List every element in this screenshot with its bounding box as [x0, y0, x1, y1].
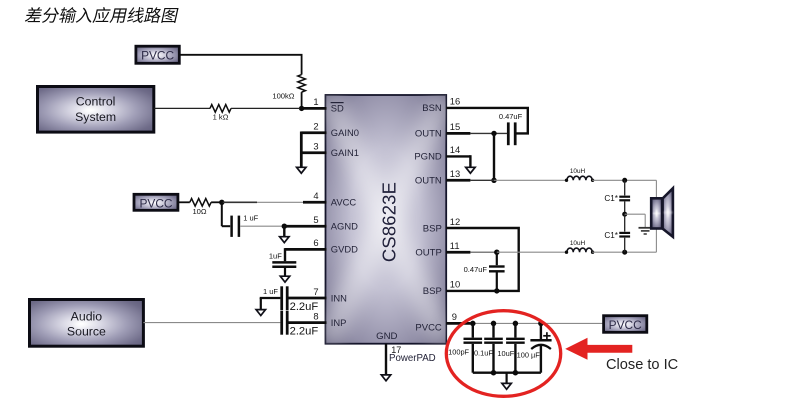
wire: cap down to pin 10 line: [496, 273, 498, 291]
wire: AVCC node to pin 4: [222, 201, 257, 203]
wire: 1k resistor to SD node: [231, 107, 300, 109]
capacitor 1uF (GVDD bypass): [272, 261, 296, 264]
node: AGND junction (pin 5): [282, 224, 287, 229]
svg-text:AGND: AGND: [331, 221, 358, 232]
svg-text:PVCC: PVCC: [139, 196, 172, 210]
svg-text:14: 14: [450, 144, 460, 155]
capacitor 2.2uF (INP coupling): [280, 311, 283, 335]
node: BSP junction (pin 10): [494, 288, 499, 293]
Audio Source box: [30, 300, 144, 347]
svg-text:10uH: 10uH: [570, 240, 586, 247]
svg-text:GVDD: GVDD: [331, 244, 358, 255]
svg-text:1 kΩ: 1 kΩ: [213, 113, 229, 122]
svg-text:10uH: 10uH: [570, 168, 586, 175]
wire: pin 9 PVCC stub: [446, 322, 470, 325]
wire: Control System to 1k resistor: [154, 107, 210, 109]
node: decoupling junction 1: [470, 321, 476, 327]
svg-text:SD: SD: [331, 103, 344, 114]
wire: 100k resistor down to SD node: [301, 92, 303, 108]
wire: OUTP to filter inductor: [497, 251, 567, 253]
red highlight ellipse (close to IC): [446, 311, 560, 397]
svg-text:GND: GND: [376, 331, 397, 342]
wire: midpoint to earth ground: [625, 213, 646, 215]
wire: pin 3 GAIN1 stub: [301, 151, 326, 154]
node: OUTP junction (pin 11): [494, 250, 499, 255]
svg-text:5: 5: [313, 214, 318, 225]
svg-text:OUTN: OUTN: [415, 176, 442, 187]
svg-text:Control: Control: [76, 95, 116, 109]
resistor 100kOhm (vertical): [298, 75, 306, 93]
wire: C1 chain top: [624, 180, 626, 195]
speaker driver body: [651, 198, 662, 228]
node: filter midpoint: [622, 212, 627, 217]
wire: pin 2 GAIN0 stub: [301, 131, 326, 134]
svg-text:11: 11: [450, 240, 460, 251]
svg-text:10: 10: [450, 279, 460, 290]
svg-text:PVCC: PVCC: [415, 323, 442, 334]
ground (AGND): [280, 237, 289, 243]
wire: SD node to pin 1 stub: [300, 107, 326, 110]
Control System box: [38, 87, 154, 133]
svg-text:CS8623E: CS8623E: [378, 182, 399, 262]
wire: inductor to speaker (bottom): [592, 251, 656, 253]
wire: 10 ohm to AVCC node: [211, 201, 222, 203]
svg-text:100kΩ: 100kΩ: [272, 92, 294, 101]
svg-text:0.47uF: 0.47uF: [464, 265, 488, 274]
U1 left pin names: SD GAIN0 GAIN1 AVCC AGND GVDD INN INP: [331, 103, 359, 328]
svg-text:INN: INN: [331, 292, 347, 303]
svg-text:INP: INP: [331, 317, 347, 328]
wire: mid node down to C1 bottom: [624, 214, 626, 231]
U1 pin numbers 16-9 (right): [450, 96, 460, 323]
node: OUTN junction (pin 15): [491, 131, 496, 136]
svg-text:4: 4: [313, 190, 318, 201]
wire: PVCC box to 100k resistor (top rail): [179, 54, 302, 56]
svg-text:PowerPAD: PowerPAD: [389, 353, 436, 364]
wire: inductor to speaker (top): [592, 179, 656, 181]
svg-text:0.1uF: 0.1uF: [474, 348, 493, 357]
plus sign (electrolytic polarity): [543, 335, 550, 337]
svg-text:AVCC: AVCC: [331, 196, 357, 207]
capacitor 100uF electrolytic (decoupling): [540, 323, 542, 339]
capacitor C1* (top): [619, 196, 630, 198]
svg-text:100pF: 100pF: [448, 348, 469, 357]
capacitor 0.47uF (BSP bootstrap): [489, 265, 505, 267]
svg-text:15: 15: [450, 121, 460, 132]
wire: pin 17 PowerPAD to ground: [385, 344, 387, 376]
wire: pin 11 OUTP stub: [446, 251, 470, 254]
svg-text:6: 6: [313, 237, 318, 248]
ground (GAIN net): [297, 167, 306, 173]
wire: OUTP junction down to 0.47uF cap: [496, 252, 498, 265]
wire: C1 bottom to OUTP line: [624, 238, 626, 253]
PVCC supply box (top): [136, 46, 179, 63]
svg-text:BSN: BSN: [422, 103, 442, 114]
svg-text:0.47uF: 0.47uF: [499, 112, 523, 121]
ground (INN AC ground): [260, 298, 262, 310]
wire: AGND node to pin 5: [284, 225, 326, 228]
svg-text:PGND: PGND: [414, 152, 442, 163]
wire: pin 14 PGND to ground: [446, 155, 470, 157]
svg-text:2.2uF: 2.2uF: [290, 301, 319, 313]
wire: cap to pin 7 INN: [289, 297, 327, 300]
op-amp U1: CS8623E IC body: [326, 95, 447, 344]
svg-text:9: 9: [452, 311, 457, 322]
node: bottom rail junction A: [491, 370, 497, 376]
ground (GVDD cap): [280, 276, 289, 282]
wire: PVCC box to 10 ohm resistor: [178, 201, 190, 203]
node: OUTN junction (pin 13): [491, 178, 496, 183]
ground (PGND): [466, 167, 475, 173]
wire: pin 16 BSN loop: [446, 108, 528, 133]
node: C1 bottom junction: [622, 250, 627, 255]
svg-text:10uF: 10uF: [497, 349, 514, 358]
inductor 10uH (OUTN): [567, 176, 592, 180]
wire: ground to INN coupling cap: [260, 297, 281, 299]
svg-text:Audio: Audio: [71, 309, 103, 323]
wire: OUTN vertical pin15 to pin13: [493, 133, 495, 180]
svg-text:3: 3: [313, 140, 318, 151]
svg-text:10Ω: 10Ω: [192, 207, 206, 216]
wire: cap to AGND node: [240, 225, 284, 227]
ground (earth symbol, speaker mid): [639, 227, 652, 229]
capacitor 2.2uF (INN coupling): [280, 286, 283, 310]
svg-text:PVCC: PVCC: [141, 49, 174, 63]
resistor R 1kOhm: [210, 105, 231, 113]
node: C1 top junction: [622, 178, 627, 183]
wire: OUTN to filter inductor: [494, 179, 567, 181]
svg-text:BSP: BSP: [423, 286, 442, 297]
speaker horn cone: [663, 188, 673, 237]
capacitor 100pF (decoupling): [472, 323, 474, 337]
svg-text:System: System: [75, 110, 116, 124]
wire: cap to ground: [284, 268, 286, 277]
red arrow pointing at decoupling bank: [565, 338, 632, 360]
svg-text:OUTN: OUTN: [415, 129, 442, 140]
capacitor 0.1uF (decoupling): [492, 323, 494, 337]
ground (PowerPAD): [381, 375, 390, 381]
node: SD junction (pin 1): [299, 106, 304, 111]
wire: pin 13 OUTN stub: [446, 179, 470, 182]
U1 right pin names: BSN OUTN PGND OUTN BSP OUTP BSP PVCC: [414, 103, 442, 333]
capacitor 0.47uF (BSN bootstrap): [507, 122, 510, 145]
wire: decoupling bottom rail: [473, 372, 541, 374]
svg-text:Close to IC: Close to IC: [606, 357, 678, 373]
svg-text:C1*: C1*: [604, 231, 618, 240]
svg-text:C1*: C1*: [604, 194, 618, 203]
svg-text:GAIN0: GAIN0: [331, 127, 359, 138]
wire: AVCC node down to decoupling cap: [221, 201, 223, 226]
wire: pin 6 GVDD to bypass cap: [285, 248, 327, 251]
wire: PVCC rail to PVCC box: [470, 322, 603, 324]
svg-text:OUTP: OUTP: [415, 248, 441, 259]
svg-text:1uF: 1uF: [269, 251, 282, 260]
node: decoupling junction 3: [513, 321, 519, 327]
node: bottom rail junction B: [513, 370, 519, 376]
node: decoupling junction 2: [491, 321, 497, 327]
svg-text:12: 12: [450, 216, 460, 227]
capacitor 1uF (AVCC decoupling): [230, 216, 233, 237]
svg-text:16: 16: [450, 96, 460, 107]
U1 pin numbers 1-8 (left): [313, 96, 318, 321]
svg-text:1: 1: [313, 96, 318, 107]
wire: GAIN vertical to ground: [300, 132, 303, 168]
svg-text:Source: Source: [67, 324, 106, 338]
svg-text:1 uF: 1 uF: [243, 214, 258, 223]
wire: rail to ground: [506, 373, 508, 384]
wire: Audio Source to INP coupling cap: [143, 322, 280, 324]
wire: C1 top to mid node: [624, 202, 626, 215]
svg-text:7: 7: [313, 286, 318, 297]
inductor 10uH (OUTP): [567, 248, 592, 252]
capacitor C1* (bottom): [619, 232, 630, 234]
svg-text:PVCC: PVCC: [609, 318, 642, 332]
PVCC supply box (middle left): [134, 194, 178, 210]
title: 差分输入应用线路图: [25, 7, 179, 23]
svg-text:13: 13: [450, 168, 460, 179]
node: decoupling junction 4: [538, 321, 544, 327]
svg-text:GAIN1: GAIN1: [331, 147, 359, 158]
wire: AGND node to ground: [283, 226, 285, 237]
wire: pin 12 BSP loop to pin 10: [446, 228, 519, 291]
node: AVCC junction: [219, 200, 224, 205]
wire: pin 15 OUTN stub: [446, 132, 470, 135]
svg-text:2.2uF: 2.2uF: [290, 325, 319, 337]
svg-text:BSP: BSP: [423, 223, 442, 234]
PVCC supply box (right): [604, 316, 647, 333]
svg-text:100 µF: 100 µF: [517, 351, 541, 360]
svg-text:1 uF: 1 uF: [263, 287, 278, 296]
resistor 10 Ohm: [190, 199, 211, 207]
svg-text:2: 2: [313, 120, 318, 131]
wire: cap to pin 8 INP: [289, 321, 327, 324]
ground (decoupling bank): [502, 383, 511, 389]
capacitor 10uF (decoupling): [514, 323, 516, 337]
